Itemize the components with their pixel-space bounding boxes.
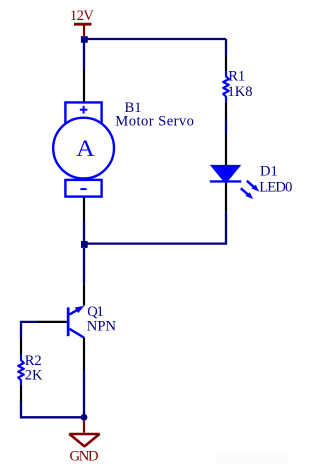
motor B1 minus sign [80,188,86,190]
ground symbol [69,421,99,447]
wire base to R2 [21,322,37,338]
svg-text:2K: 2K [25,367,43,383]
resistor R1 [223,71,229,102]
LED D1 emission arrows [241,181,259,199]
transistor Q1 base pin [37,321,67,323]
svg-text:12V: 12V [70,8,94,24]
motor B1 minus pin [83,198,85,221]
junction at 12V node [81,36,88,43]
wire Q1 to ground node [83,370,85,417]
motor B1 plus sign [80,106,88,114]
power symbol 12V [74,24,92,36]
motor B1 plus pin [83,70,85,102]
wire 12V node down to motor [83,39,85,70]
junction collector node [81,241,88,248]
wire R1 to D1 [225,119,227,134]
resistor R2 bottom pin [20,385,22,402]
transistor Q1 top pin [83,283,85,305]
resistor R2 top pin [20,338,22,355]
svg-text:1K8: 1K8 [227,84,252,100]
wire R2 to ground node [21,402,84,417]
motor B1 plus terminal box [65,102,101,123]
svg-text:R1: R1 [228,68,245,84]
resistor R1 bottom pin [225,102,227,119]
wire 12V rail horizontal [84,38,226,40]
transistor Q1 [67,306,85,338]
LED D1 anode pin [225,134,227,165]
svg-text:GND: GND [70,448,98,464]
motor B1 body circle [53,118,114,179]
wire 12V rail to R1 [225,39,227,55]
resistor R2 [18,355,24,385]
wire collector node down to Q1 [83,248,85,283]
motor B1 minus terminal box [65,180,101,197]
LED D1 cathode pin [225,183,227,212]
junction ground node [81,414,88,421]
resistor R1 top pin [225,55,227,71]
svg-text:A: A [76,136,95,162]
transistor Q1 bottom pin [83,338,85,370]
wire D1 down to collector node [84,212,226,244]
svg-text:NPN: NPN [87,319,117,335]
svg-text:LED0: LED0 [259,179,292,195]
motor B1 armature letter A [76,136,95,162]
LED D1 [210,165,242,183]
svg-text:Motor Servo: Motor Servo [115,114,194,130]
svg-text:D1: D1 [260,164,278,180]
wire motor to collector node [83,221,85,244]
